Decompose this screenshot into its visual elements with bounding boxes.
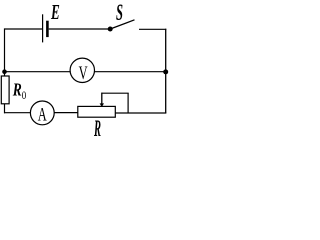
svg-text:R0: R0 [12,80,26,103]
svg-text:A: A [38,104,47,125]
svg-text:V: V [79,63,88,84]
svg-text:R: R [94,116,101,140]
svg-text:S: S [116,0,123,25]
svg-text:E: E [50,0,59,24]
